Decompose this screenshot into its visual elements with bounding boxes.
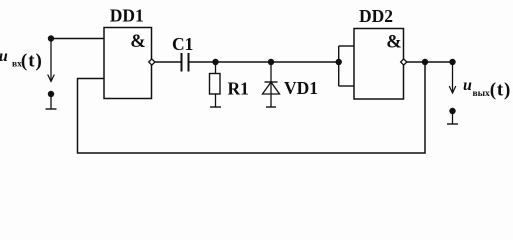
- svg-text:u: u: [463, 77, 472, 94]
- svg-text:&: &: [386, 33, 401, 53]
- svg-text:(t): (t): [21, 51, 43, 72]
- svg-text:C1: C1: [172, 34, 193, 54]
- svg-text:R1: R1: [228, 79, 249, 99]
- svg-text:u: u: [0, 48, 8, 65]
- svg-text:&: &: [130, 32, 145, 52]
- svg-text:вых: вых: [473, 89, 491, 99]
- svg-text:DD2: DD2: [359, 6, 393, 26]
- svg-text:VD1: VD1: [284, 78, 318, 98]
- svg-text:(t): (t): [490, 79, 511, 100]
- svg-text:DD1: DD1: [110, 6, 144, 26]
